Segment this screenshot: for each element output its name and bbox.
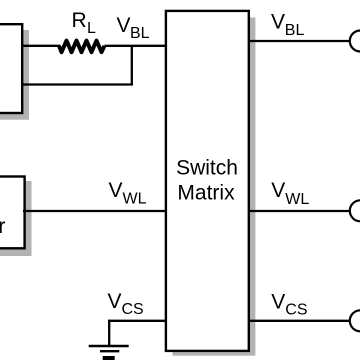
wire: U1 output to resistor RL — [21, 45, 60, 47]
probe terminal circle (BL) — [350, 31, 360, 52]
wire: switch matrix to CS probe — [249, 320, 351, 322]
wire: switch matrix to WL probe — [249, 210, 351, 212]
resistor RL — [59, 41, 105, 53]
svg-text:L: L — [87, 20, 96, 37]
svg-text:R: R — [72, 9, 87, 32]
svg-text:V: V — [117, 14, 131, 37]
wire: switch matrix to BL probe — [249, 40, 351, 42]
svg-text:r: r — [0, 215, 5, 238]
label VWL (left) — [109, 179, 147, 208]
instrument box U2 (generator, cut off at left) — [0, 177, 25, 249]
svg-text:V: V — [271, 179, 285, 202]
probe terminal circle (CS) — [350, 310, 360, 331]
ground symbol — [89, 346, 129, 360]
svg-text:WL: WL — [123, 191, 147, 208]
wire: U1 sense line (lower) — [21, 83, 133, 85]
switch matrix box shadow — [173, 18, 256, 356]
label VWL (right) — [271, 179, 309, 208]
svg-text:BL: BL — [285, 22, 305, 39]
svg-text:WL: WL — [285, 191, 309, 208]
svg-text:BL: BL — [130, 25, 150, 42]
svg-text:Matrix: Matrix — [177, 182, 235, 205]
wire: VCS line to switch matrix — [108, 320, 166, 322]
wire: VCS drop to ground — [108, 320, 110, 346]
svg-text:V: V — [108, 290, 122, 313]
label VCS (left) — [108, 290, 144, 318]
svg-text:V: V — [271, 10, 285, 33]
switch matrix label — [176, 157, 238, 205]
probe terminal circle (WL) — [350, 200, 360, 221]
instrument box U1 (source-measure unit, cut off at left) — [0, 24, 22, 113]
svg-text:V: V — [109, 179, 123, 202]
label RL — [72, 9, 97, 37]
svg-text:CS: CS — [285, 301, 307, 318]
wire: vertical junction at node VBL — [131, 45, 133, 85]
label VBL (right) — [271, 10, 304, 39]
switch matrix box U3 — [166, 11, 249, 351]
instrument box U2 shadow — [0, 181, 32, 256]
instrument box U1 shadow — [0, 30, 29, 120]
svg-text:CS: CS — [122, 301, 144, 318]
svg-text:V: V — [271, 290, 285, 313]
wire: U2 to switch matrix (VWL) — [23, 210, 166, 212]
label VBL (left) — [117, 14, 150, 42]
label VCS (right) — [271, 290, 307, 318]
svg-text:Switch: Switch — [176, 157, 238, 180]
wire: resistor RL to switch matrix (node VBL) — [105, 45, 167, 47]
